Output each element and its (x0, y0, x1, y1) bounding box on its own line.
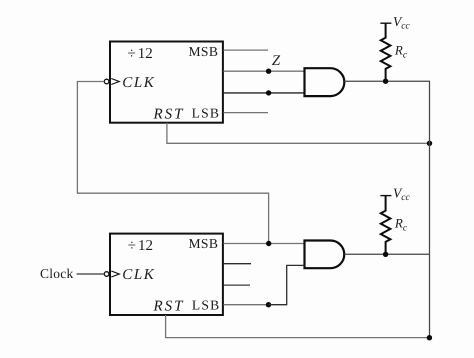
svg-text:RST: RST (153, 299, 185, 315)
junction dot at U2 LSB node (266, 302, 271, 307)
junction dot where R2 joins A2 output (383, 252, 388, 257)
svg-text:CLK: CLK (122, 267, 154, 283)
svg-text:÷12: ÷12 (128, 238, 153, 254)
junction dot on U1 third output (266, 90, 271, 95)
svg-text:LSB: LSB (192, 105, 219, 120)
junction dot at bottom right corner of reset net (427, 335, 432, 340)
counter U2 (bottom divide-by-12 block) (110, 234, 223, 315)
resistor R2 (bottom pull-up Rc) (381, 196, 391, 255)
junction dot on reset net at U1 RST tap (427, 141, 432, 146)
wire: U1 LSB output stub (223, 112, 268, 114)
wire: U1 third output to AND gate A1 bottom input (223, 92, 304, 94)
node Z junction dot (266, 69, 271, 74)
clock wedge (U1 CLK input) (111, 79, 119, 85)
svg-text:Clock: Clock (40, 266, 73, 281)
clock bubble (U1 CLK input) (104, 79, 109, 84)
wire: U2 third output stub (223, 284, 250, 286)
wire: U2 second output stub (223, 263, 251, 265)
wire: U2 LSB output segment to junction (223, 304, 268, 306)
junction dot where R1 joins A1 output (383, 79, 388, 84)
resistor R1 (top pull-up Rc) (381, 23, 391, 81)
svg-text:MSB: MSB (188, 236, 218, 251)
counter U1 (top divide-by-12 block) (110, 42, 223, 123)
AND gate A1 (top) (305, 68, 345, 96)
Vcc bar symbol (bottom) (380, 195, 391, 197)
svg-text:MSB: MSB (188, 44, 218, 59)
wire: U1 MSB output stub (223, 49, 268, 51)
svg-text:Z: Z (272, 53, 281, 69)
AND gate A2 (bottom) (305, 241, 345, 269)
svg-text:÷12: ÷12 (128, 46, 153, 62)
wire: U2 RST to reset net along bottom (166, 315, 430, 338)
wire: feedback from U2 MSB node up to U1 CLK (77, 82, 268, 244)
junction dot at U2 MSB node (266, 241, 271, 246)
clock bubble (U2 CLK input) (104, 272, 109, 277)
wire: U1 output Z to AND gate A1 top input (223, 70, 304, 72)
wire: U2 MSB output to AND gate A2 top input (223, 243, 304, 245)
Vcc bar symbol (top) (380, 22, 391, 24)
clock wedge (U2 CLK input) (111, 271, 119, 277)
svg-text:RST: RST (153, 107, 185, 123)
wire: A2 output to right vertical reset net (344, 253, 429, 255)
wire: A1 output to right vertical reset net (344, 81, 429, 337)
wire: U1 RST to reset net (167, 123, 430, 144)
wire: Clock lead to U2 CLK bubble (77, 273, 105, 275)
wire: U2 LSB jog up to AND gate A2 bottom input (269, 265, 305, 304)
svg-text:CLK: CLK (122, 75, 154, 91)
svg-text:LSB: LSB (192, 298, 219, 313)
